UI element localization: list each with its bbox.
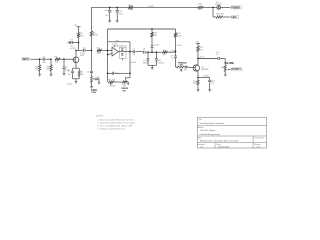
svg-text:W:\Users\Chu.. Vexx Bass Boss: W:\Users\Chu.. Vexx Bass Boss Overd.Sch — [200, 141, 238, 143]
label DRIVE — [121, 84, 128, 93]
junction C10 — [109, 7, 111, 9]
svg-text:OUTPUT: OUTPUT — [231, 69, 241, 71]
transistor Q2 — [193, 65, 209, 71]
svg-text:+4.56V: +4.56V — [130, 62, 137, 64]
svg-text:2N5088: 2N5088 — [201, 69, 209, 71]
svg-text:1N5817: 1N5817 — [215, 4, 223, 6]
svg-text:100R: 100R — [129, 9, 134, 11]
wire top +9V rail — [92, 6, 214, 8]
wire LED branch — [213, 7, 216, 17]
capacitor C5 gain branch — [86, 50, 93, 76]
junction collector — [197, 58, 199, 60]
svg-text:100n: 100n — [42, 62, 46, 64]
resistor R7 series — [97, 48, 102, 55]
svg-text:Chuck D. Bones: Chuck D. Bones — [200, 130, 215, 132]
capacitor C10 47u — [105, 7, 112, 20]
svg-text:4. Tantalum is preferred for D: 4. Tantalum is preferred for D1. — [98, 128, 126, 131]
label GAIN — [91, 89, 97, 94]
capacitor C7 — [130, 49, 143, 56]
ground GAIN — [90, 87, 93, 89]
svg-text:47u: 47u — [105, 15, 108, 17]
junction power node — [212, 7, 214, 9]
power tap +9V — [73, 25, 80, 27]
resistor R2 1M — [46, 59, 52, 74]
wire loop top + C6 — [108, 72, 130, 75]
capacitor C2 100p — [63, 59, 71, 73]
label +4.56V — [130, 62, 137, 64]
wire input — [30, 58, 39, 60]
capacitor C3 + ground — [68, 40, 79, 48]
wire loop right — [129, 52, 131, 74]
junction noninv input — [107, 54, 109, 56]
wire to C2 — [60, 58, 64, 60]
junction mid node — [91, 50, 93, 52]
svg-text:2. Select D4 and/or R10 for 0.: 2. Select D4 and/or R10 for 0.7V on D4-D… — [98, 121, 136, 124]
svg-text:+0.83V: +0.83V — [202, 75, 209, 77]
junction loop top left — [107, 73, 109, 75]
label +4.1V — [199, 56, 205, 58]
junction loop top right — [129, 73, 131, 75]
wire source — [75, 63, 77, 68]
label VOLUME — [224, 63, 234, 65]
wire mid signal — [148, 51, 176, 53]
label +1.30V right — [176, 45, 182, 47]
svg-text:+4.1V: +4.1V — [199, 56, 205, 58]
potentiometer GAIN — [91, 76, 95, 87]
port LED+ — [230, 16, 238, 19]
svg-text:Celestial Engineering: Celestial Engineering — [199, 133, 220, 136]
svg-text:47u: 47u — [97, 77, 100, 79]
capacitor C9 — [174, 51, 177, 67]
svg-text:100n: 100n — [119, 14, 123, 16]
junction drain-C4 — [75, 50, 77, 52]
label +9.38V on rail — [148, 6, 155, 8]
svg-text:47u: 47u — [211, 83, 214, 85]
transistor Q1 J201 — [73, 53, 85, 63]
ground loop — [110, 82, 112, 85]
junction treble node — [175, 51, 177, 53]
svg-text:1N914: 1N914 — [158, 62, 165, 64]
junction D1 — [147, 51, 149, 53]
notes block — [96, 116, 136, 131]
junction C11 — [116, 7, 118, 9]
resistor R16 — [128, 5, 134, 11]
wire wiper out — [229, 68, 232, 70]
ground C11 — [116, 21, 119, 23]
svg-text:1u: 1u — [133, 54, 135, 56]
resistor R10 bias — [151, 28, 158, 52]
gain wiper cap — [95, 77, 101, 84]
svg-text:1N34A: 1N34A — [143, 61, 150, 64]
svg-text:1u: 1u — [83, 53, 85, 55]
diode D5 1N5817 — [213, 2, 223, 9]
svg-text:07-Nov-2020: 07-Nov-2020 — [218, 146, 230, 148]
ground R2 — [50, 74, 53, 76]
resistor R4 — [77, 27, 84, 43]
wire diode gnd — [148, 65, 157, 68]
svg-text:1u: 1u — [171, 58, 173, 60]
diode D4 — [155, 52, 164, 65]
svg-text:47n: 47n — [184, 69, 187, 71]
svg-text:Document: Document — [254, 137, 264, 140]
svg-text:100K: 100K — [91, 92, 96, 94]
svg-text:+0.23V: +0.23V — [109, 86, 116, 88]
resistor R12 100K — [174, 29, 182, 51]
diode D1 — [143, 52, 150, 65]
svg-text:390R: 390R — [93, 35, 98, 37]
port OUTPUT — [230, 68, 242, 71]
svg-text:File:: File: — [198, 137, 202, 139]
svg-text:47u: 47u — [68, 74, 71, 76]
svg-text:Vexx Bass Boss Overdrive: Vexx Bass Boss Overdrive — [199, 122, 224, 125]
svg-text:50K: 50K — [122, 90, 126, 92]
svg-text:1M: 1M — [35, 69, 38, 71]
wire to gate — [64, 58, 73, 60]
capacitor C1 — [40, 56, 51, 64]
label +10.3V — [153, 44, 160, 46]
wire bias rail — [108, 28, 176, 30]
potentiometer DRIVE — [123, 73, 130, 84]
svg-text:+0.61V: +0.61V — [66, 84, 73, 86]
svg-text:1N4148 x2: 1N4148 x2 — [117, 46, 128, 48]
wire bias drop — [107, 29, 109, 42]
op-amp U1:A TL072 — [108, 40, 120, 56]
wire to LED+ — [223, 16, 231, 18]
resistor R15 4K7 — [216, 14, 225, 19]
wire drain — [76, 43, 79, 57]
ground source — [75, 82, 78, 84]
junction opamp out — [129, 51, 131, 53]
svg-text:1. Select D1 and/or R9 for 0.2: 1. Select D1 and/or R9 for 0.2V on D1-D. — [98, 118, 135, 121]
capacitor C11 100n — [116, 7, 123, 20]
potentiometer TREBLE — [176, 66, 185, 72]
capacitor treble out — [184, 66, 193, 72]
svg-text:NOTES:: NOTES: — [96, 116, 104, 118]
label +0.83V — [202, 75, 209, 77]
wire to POWER — [221, 6, 231, 8]
junction R2 — [50, 58, 52, 60]
svg-text:LED+: LED+ — [231, 17, 238, 19]
resistor R13 10R — [198, 3, 203, 11]
label +0.23V — [109, 86, 116, 88]
svg-text:1 of 1: 1 of 1 — [256, 146, 262, 148]
capacitor C13 emitter — [198, 78, 215, 90]
ground C10 — [108, 21, 111, 23]
resistor R1 1M — [35, 59, 41, 74]
junction D4 — [156, 51, 158, 53]
label +1.30V — [169, 51, 176, 53]
resistor R11 collector — [195, 41, 204, 65]
label +4.58V — [69, 48, 76, 50]
label C9 — [171, 56, 174, 60]
resistor R14 emitter — [193, 71, 199, 90]
ground R1 — [38, 74, 41, 76]
svg-text:VOLUME: VOLUME — [224, 63, 234, 65]
svg-text:+1.30: +1.30 — [176, 45, 182, 47]
svg-text:POWER: POWER — [231, 7, 240, 9]
junction inv input — [107, 50, 109, 52]
svg-text:1M: 1M — [46, 69, 49, 71]
wire source join — [73, 79, 80, 82]
label +0.61V — [66, 84, 73, 86]
resistor R8 loop bottom — [108, 73, 123, 83]
wire inverting vertical — [107, 42, 109, 74]
resistor R9 1K — [163, 50, 168, 57]
svg-text:20K: 20K — [179, 65, 183, 67]
clipping diode box D2 D3 — [117, 46, 130, 61]
ground C2 — [63, 74, 66, 76]
junction R1 — [39, 58, 41, 60]
ground C13 — [208, 90, 211, 92]
svg-text:3. C9 is cut 200/269, FC4 700: 3. C9 is cut 200/269, FC4 700 for 1 GE. — [98, 125, 134, 128]
capacitor C12 — [198, 52, 225, 60]
svg-text:Author: Author — [198, 126, 204, 129]
capacitor C8 — [142, 49, 148, 54]
junction drain node — [78, 42, 80, 44]
svg-text:100n: 100n — [115, 73, 119, 75]
svg-text:INPUT: INPUT — [23, 59, 30, 61]
port POWER — [230, 6, 241, 9]
svg-text:47u: 47u — [70, 45, 73, 47]
ground VOLUME — [224, 74, 227, 76]
svg-text:1u: 1u — [216, 54, 218, 56]
junction C2 — [63, 58, 65, 60]
svg-text:+10.3V: +10.3V — [153, 44, 160, 46]
resistor R6 from rail — [90, 7, 98, 50]
svg-text:100K: 100K — [177, 36, 182, 38]
resistor R3 10K series — [55, 56, 60, 64]
resistor R5 source — [76, 68, 85, 79]
svg-text:R15 4K7: R15 4K7 — [216, 14, 225, 16]
potentiometer VOLUME — [221, 59, 230, 75]
wire to inv node — [102, 49, 108, 51]
capacitor C4 — [76, 48, 92, 55]
title block — [197, 117, 267, 148]
port INPUT — [22, 58, 30, 61]
capacitor source bypass — [68, 68, 76, 79]
svg-text:+9.38V: +9.38V — [148, 6, 155, 8]
ground diodes — [151, 68, 154, 70]
junction bias tap — [151, 51, 153, 53]
feedback wire top — [108, 42, 130, 52]
label TREBLE — [178, 63, 187, 67]
ground R14 — [197, 90, 200, 92]
